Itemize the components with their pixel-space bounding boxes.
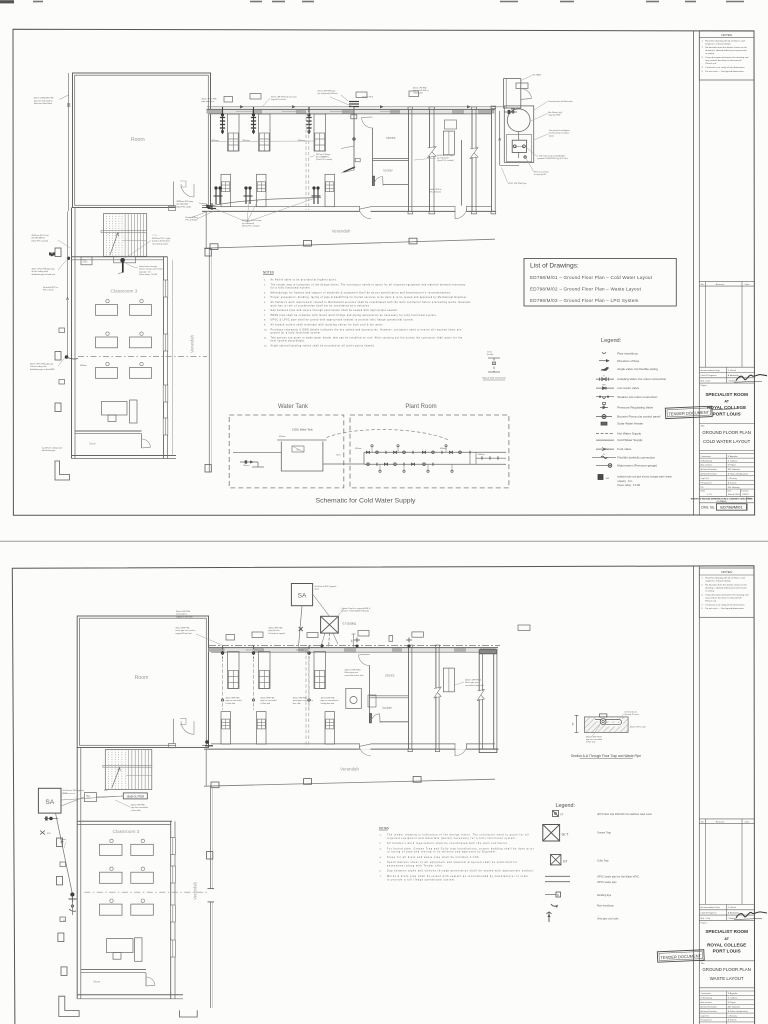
svg-text:All builder's work requirement: All builder's work requirement related t… [271, 301, 471, 304]
svg-text:Dias 100: Dias 100 [296, 650, 303, 652]
svg-text:No deviation from the details: No deviation from the details shown on t… [705, 584, 748, 587]
svg-text:SA: SA [45, 799, 54, 806]
svg-text:Rodding Eye: Rodding Eye [597, 894, 612, 897]
svg-text:any contract document is disco: any contract document is discovered / [705, 596, 742, 599]
svg-text:(for 100MART): (for 100MART) [316, 156, 329, 159]
svg-text:c/w isolating valves: c/w isolating valves [152, 242, 168, 245]
svg-text:Chk by: Chk by [748, 498, 753, 500]
svg-text:(3b GEOMETY): (3b GEOMETY) [32, 238, 46, 240]
svg-text:to laying of pipe and testing: to laying of pipe and testing to be witn… [387, 851, 497, 854]
svg-text:Isolating Valve c/w union: Isolating Valve c/w union connection [617, 377, 666, 381]
svg-text:Flexible (unkink) connection: Flexible (unkink) connection [617, 455, 655, 459]
svg-text:Verandah: Verandah [340, 767, 359, 772]
svg-text:12.: 12. [264, 346, 267, 348]
svg-text:Read this drawing with all arc: Read this drawing with all architect's a… [705, 39, 745, 42]
svg-text:electric storage water heater: electric storage water heater [139, 268, 163, 271]
svg-text:Grease Trap for a capacity 800: Grease Trap for a capacity 800L & [342, 607, 371, 610]
svg-text:Waste pipe runs: Waste pipe runs [465, 681, 479, 684]
svg-text:65mm uPE PCR 100 c/w outer: 65mm uPE PCR 100 c/w outer [271, 95, 297, 98]
svg-text:Project:: Project: [701, 384, 708, 387]
svg-text:PORT LOUIS: PORT LOUIS [713, 949, 741, 954]
svg-text:Revision: Revision [716, 284, 725, 286]
svg-text:S. Beneficiary: S. Beneficiary [701, 997, 713, 1000]
svg-text:valves: valves [549, 135, 554, 137]
svg-text:The tender dwg is indication o: The tender dwg is indication of the desi… [271, 283, 467, 286]
svg-text:300: 300 [351, 640, 353, 643]
svg-text:WASTE LAYOUT: WASTE LAYOUT [710, 976, 744, 981]
svg-text:FL: FL [603, 454, 605, 456]
svg-text:COLD WATER LAYOUT: COLD WATER LAYOUT [703, 439, 751, 444]
svg-text:Slope for all drain and waste: Slope for all drain and waste pipe shall… [387, 856, 480, 859]
svg-text:ceiling floor slab: ceiling floor slab [321, 702, 335, 705]
svg-text:Power rating : 3.0 kW: Power rating : 3.0 kW [139, 273, 157, 276]
svg-text:Asst architect: Asst architect [701, 464, 713, 467]
svg-text:distribution pipe: distribution pipe [42, 449, 55, 452]
svg-text:100mm UPVC solid: 100mm UPVC solid [630, 726, 646, 728]
svg-text:capacity 750W: capacity 750W [548, 114, 561, 117]
svg-text:engineer's relevant details.: engineer's relevant details. [705, 42, 731, 45]
svg-text:S. Collector: S. Collector [728, 997, 738, 1000]
svg-text:booster pump w/ isolator: booster pump w/ isolator [549, 132, 570, 135]
svg-text:Verandah: Verandah [193, 881, 198, 900]
svg-text:45/32mm PVC: 4 pipe: 45/32mm PVC: 4 pipe [152, 238, 171, 240]
svg-text:UPVC waste pipe: UPVC waste pipe [597, 881, 617, 884]
svg-text:pipe runs concealed: pipe runs concealed [131, 806, 148, 809]
svg-text:NOTES: NOTES [379, 826, 389, 830]
svg-text:Ø50mm: Ø50mm [355, 448, 362, 450]
svg-text:(2mm PVC conduit): (2mm PVC conduit) [437, 159, 454, 162]
svg-text:joined to 40x32 down: joined to 40x32 down [151, 240, 170, 243]
svg-text:ED798/M/01: ED798/M/01 [720, 504, 743, 509]
svg-text:Specifications sheet of all eq: Specifications sheet of all equipment an… [387, 861, 518, 864]
svg-text:concealed in floor slab: concealed in floor slab [345, 674, 364, 677]
svg-text:verbal uplift: verbal uplift [413, 92, 423, 95]
svg-text:Manometer (Pressure gauge): Manometer (Pressure gauge) [617, 464, 657, 468]
svg-text:pipe (d) to be: pipe (d) to be [268, 629, 279, 632]
svg-text:Legend:: Legend: [556, 803, 576, 809]
svg-text:Booster Pump c/w control p: Booster Pump c/w control panel [617, 415, 660, 419]
svg-text:Read this drawing with all arc: Read this drawing with all architect's a… [705, 577, 745, 580]
svg-text:stack: stack [315, 588, 319, 591]
svg-text:capped W low level: capped W low level [175, 633, 192, 635]
svg-text:40mm UPE PN6: 40mm UPE PN6 [175, 628, 189, 630]
svg-text:pipe run concealed in: pipe run concealed in [321, 699, 339, 702]
svg-text:AT: AT [724, 400, 729, 404]
svg-text:40mm UPE PN6: 40mm UPE PN6 [225, 698, 239, 700]
svg-text:pipe connect to: pipe connect to [202, 100, 215, 103]
svg-text:expand 8 cm limit: expand 8 cm limit [271, 98, 286, 101]
svg-text:Principal S.U.: Principal S.U. [701, 481, 713, 484]
svg-text:Pipe rises/drop: Pipe rises/drop [617, 351, 638, 355]
svg-text:SM. Sebastien: SM. Sebastien [728, 1005, 740, 1008]
svg-text:For buried pipe, Grease Trap a: For buried pipe, Grease Trap and Gully t… [387, 847, 534, 850]
svg-text:Gully Trap: Gully Trap [597, 860, 609, 863]
svg-text:S. Appadoo: S. Appadoo [728, 455, 738, 458]
svg-text:Ø50mm: Ø50mm [80, 365, 87, 367]
svg-text:100mm UPE PN10: 100mm UPE PN10 [465, 680, 481, 682]
svg-text:Dias 100: Dias 100 [246, 650, 253, 652]
svg-text:Architect/Translator: Architect/Translator [701, 1010, 718, 1013]
svg-text:Ø50mm: Ø50mm [279, 436, 286, 438]
svg-text:best system accordingly.: best system accordingly. [271, 340, 306, 343]
svg-text:in floor slab: in floor slab [586, 742, 595, 744]
svg-text:Barrier UPE to: Barrier UPE to [186, 216, 198, 219]
svg-text:M.E. / Civil: M.E. / Civil [701, 381, 711, 383]
svg-text:Works & drain pipe shall be jo: Works & drain pipe shall be joined with … [387, 875, 529, 878]
svg-text:Vertical PN 6: Vertical PN 6 [362, 96, 373, 99]
svg-text:Contractor is to verify all si: Contractor is to verify all site dimensi… [705, 66, 745, 69]
svg-text:NOTES: NOTES [721, 570, 732, 574]
svg-text:quoted for a fully functional: quoted for a fully functional system. [271, 332, 322, 335]
svg-text:45mm: 45mm [243, 465, 249, 467]
svg-text:Architect/Translator: Architect/Translator [701, 468, 718, 471]
svg-text:Plant Room: Plant Room [405, 404, 436, 410]
svg-text:40mm UPE PN6: 40mm UPE PN6 [293, 698, 307, 700]
svg-text:in writing.: in writing. [705, 590, 715, 593]
svg-text:(as indicated): (as indicated) [437, 157, 449, 160]
svg-text:A. Suseelt: A. Suseelt [728, 1019, 737, 1022]
svg-text:Verandah: Verandah [332, 229, 351, 234]
svg-text:Purchase schematic & DWG detai: Purchase schematic & DWG details indicat… [271, 328, 462, 331]
svg-text:45/32mm PVC-U (a): 45/32mm PVC-U (a) [32, 235, 49, 237]
svg-text:40mm UPE PN6: 40mm UPE PN6 [176, 611, 190, 613]
svg-text:Capt. S.U.: Capt. S.U. [701, 477, 710, 480]
svg-text:100mm UPE PN10: 100mm UPE PN10 [345, 670, 361, 672]
svg-text:40mm uPVC PN6 pipe (up): 40mm uPVC PN6 pipe (up) [32, 269, 55, 271]
svg-text:stores: stores [385, 674, 395, 678]
svg-text:Strainer: 750x750x800 H (mad: Strainer: 750x750x800 H (made) [342, 610, 370, 613]
svg-text:Date: Date [728, 490, 732, 493]
svg-text:pipe run concealed: pipe run concealed [260, 699, 276, 702]
svg-text:Schematic for Cold Water S: Schematic for Cold Water Supply [316, 497, 416, 504]
svg-text:Gr.T: Gr.T [562, 833, 570, 837]
svg-text:Revision: Revision [716, 821, 725, 823]
svg-text:Concrete base for Water tank: Concrete base for Water tank [548, 100, 573, 103]
svg-text:SA: SA [298, 593, 307, 600]
svg-text:Drawn by: Drawn by [742, 491, 749, 493]
svg-text:Title:: Title: [701, 962, 706, 965]
svg-text:waste pipe runs surface: waste pipe runs surface [175, 629, 195, 632]
svg-text:NOTES: NOTES [721, 33, 732, 37]
svg-text:NOTES: NOTES [263, 271, 274, 275]
svg-text:40mm UPE PN6: 40mm UPE PN6 [131, 805, 145, 807]
svg-text:HDPE pipe shall be complete wi: HDPE pipe shall be complete with fusion … [271, 314, 437, 317]
svg-text:A. Veloce (for Aqualace): A. Veloce (for Aqualace) [728, 1010, 749, 1013]
svg-text:D. Harish: D. Harish [728, 907, 736, 909]
svg-text:Angle valve c/w flexible pipin: Angle valve c/w flexible piping [617, 367, 658, 371]
svg-text:distribution pipe to feed HWS: distribution pipe to feed HWS [30, 368, 55, 371]
svg-text:Date: Date [745, 283, 750, 286]
svg-text:UPVC & LPVC pipe shall be join: UPVC & LPVC pipe shall be joined with ap… [271, 319, 415, 322]
svg-text:Marble UPE to: Marble UPE to [429, 188, 441, 191]
svg-text:ED798/M/02 – Ground Floor: ED798/M/02 – Ground Floor Plan – Waste L… [530, 286, 642, 291]
svg-text:ED798/M/03 – Ground Floor: ED798/M/03 – Ground Floor Plan – LPG Sys… [530, 298, 639, 303]
svg-text:Gap between pipes and sleeves: Gap between pipes and sleeves through pe… [387, 870, 535, 873]
svg-text:45/32mm PVC pipe: 45/32mm PVC pipe [177, 201, 193, 203]
svg-text:Direction of flow: Direction of flow [617, 359, 639, 363]
svg-text:M. Pigeot: M. Pigeot [728, 464, 736, 467]
svg-text:PVC (3 blank): PVC (3 blank) [429, 192, 441, 194]
svg-text:PVC (2 blank): PVC (2 blank) [186, 220, 198, 222]
svg-text:waste pipe to: waste pipe to [176, 613, 187, 616]
svg-text:Water Tank: Water Tank [278, 404, 309, 410]
svg-text:S. Beneficiary: S. Beneficiary [701, 459, 713, 462]
svg-text:65mm CWS/uPE PN6: 65mm CWS/uPE PN6 [34, 98, 54, 100]
svg-text:(as indicated): (as indicated) [242, 222, 254, 225]
svg-text:40mm UPE PN6: 40mm UPE PN6 [260, 698, 274, 700]
svg-text:concealed in floor slab: concealed in floor slab [465, 684, 484, 687]
svg-text:Asst architect: Asst architect [701, 1001, 713, 1004]
svg-text:pipe (as indicated) to: pipe (as indicated) to [34, 99, 53, 102]
svg-text:capped W tow level: capped W tow level [176, 615, 193, 618]
svg-text:Ø40mm: Ø40mm [440, 448, 447, 450]
svg-text:required equipment and materia: required equipment and materials (works)… [387, 837, 516, 840]
svg-text:Solar Water Heater: Solar Water Heater [617, 422, 643, 426]
svg-text:MINISTRY OF NATIONAL INFRASTRU: MINISTRY OF NATIONAL INFRASTRUCTURE & CO… [691, 497, 754, 500]
svg-text:uPVC floor trap 100x100 c/w s: uPVC floor trap 100x100 c/w stainless st… [597, 813, 652, 816]
svg-text:11.: 11. [264, 337, 267, 339]
svg-text:non return valve: non return valve [617, 386, 639, 390]
svg-text:Accommodation Supt: Accommodation Supt [701, 369, 720, 372]
svg-text:Classroom 3: Classroom 3 [113, 829, 140, 835]
svg-text:(Size PVC cond): (Size PVC cond) [177, 206, 191, 208]
svg-text:Proper excavation, bending, la: Proper excavation, bending, laying of pi… [271, 296, 468, 299]
svg-text:any contract document is disco: any contract document is discovered / [705, 59, 742, 62]
svg-text:Soil Vent w/ SVP (approx): Soil Vent w/ SVP (approx) [315, 585, 337, 588]
svg-text:Strainer c/w union connecti: Strainer c/w union connection [617, 395, 657, 399]
svg-text:(as indicated) wall fitted: (as indicated) wall fitted [318, 92, 338, 95]
svg-text:ED798/M/01 – Ground Floor: ED798/M/01 – Ground Floor Plan – Cold Wa… [530, 275, 653, 280]
svg-text:in writing.: in writing. [705, 52, 715, 55]
svg-text:stores: stores [386, 136, 396, 140]
svg-text:A. Veloce (for Aqualace): A. Veloce (for Aqualace) [728, 473, 749, 476]
svg-text:Pressure Regulating Valve: Pressure Regulating Valve [617, 406, 653, 410]
svg-text:M.E. / Civil: M.E. / Civil [701, 918, 711, 920]
svg-text:40mm uPVC PN6 pipe (up): 40mm uPVC PN6 pipe (up) [30, 364, 53, 366]
svg-text:drawing is allowed without pri: drawing is allowed without prior permiss… [705, 49, 747, 52]
svg-text:Hot Water Supply: Hot Water Supply [617, 432, 641, 436]
svg-text:DRG. No.: DRG. No. [701, 505, 715, 509]
svg-text:40mm UPE PN6: 40mm UPE PN6 [268, 628, 282, 630]
svg-text:Power rating : 3.0 kW: Power rating : 3.0 kW [617, 484, 641, 487]
svg-text:in floor slab: in floor slab [260, 702, 270, 705]
svg-text:work has to rule of coordinati: work has to rule of coordination shall n… [271, 304, 371, 307]
svg-text:Two options are given to make: Two options are given to make water heat… [271, 336, 463, 339]
svg-text:Contractor is to verify all si: Contractor is to verify all site dimensi… [705, 603, 745, 606]
svg-text:Pipe rises/drop: Pipe rises/drop [597, 905, 614, 908]
svg-text:G.T [1000L]: G.T [1000L] [342, 621, 356, 625]
svg-text:feed new toilet block: feed new toilet block [34, 102, 52, 105]
svg-text:pipe to wall RIS as: pipe to wall RIS as [413, 89, 429, 92]
svg-text:GT: GT [563, 860, 567, 864]
svg-text:All branch outlets shall termi: All branch outlets shall terminate with … [271, 324, 384, 327]
svg-text:1500L Water Tank: 1500L Water Tank [292, 427, 314, 431]
svg-text:Architect/Translator: Architect/Translator [701, 473, 718, 476]
svg-text:GROUND FLOOR PLAN: GROUND FLOOR PLAN [702, 967, 751, 972]
svg-text:10.: 10. [264, 329, 267, 331]
svg-text:Verandah: Verandah [190, 334, 195, 353]
svg-text:Accommodation Supt: Accommodation Supt [701, 906, 720, 909]
svg-text:Section A-A Through Floor Trap: Section A-A Through Floor Trap and Waste… [571, 754, 641, 758]
svg-text:Foot valve: Foot valve [617, 447, 631, 451]
svg-text:PVC 2 (mm): PVC 2 (mm) [43, 290, 54, 292]
svg-text:Please ask.: Please ask. [705, 63, 717, 65]
svg-text:SPECIALIST ROOM: SPECIALIST ROOM [705, 929, 748, 934]
svg-text:UPVC waste pipe for Hot Wate: UPVC waste pipe for Hot Water uPVC [597, 876, 639, 879]
svg-text:A. Abdoollah: A. Abdoollah [728, 374, 739, 377]
svg-text:Room: Room [131, 137, 145, 143]
svg-text:of from ceiling valve: of from ceiling valve [30, 365, 47, 368]
svg-text:Ø50mm: Ø50mm [243, 140, 250, 142]
svg-text:guardian 1300/47/220 Qty W 2.5: guardian 1300/47/220 Qty W 2.5 bar [537, 157, 568, 160]
svg-text:As Relief valve to be provided: As Relief valve to be provided at highes… [271, 279, 337, 282]
svg-text:L. Ramsay: L. Ramsay [728, 478, 737, 480]
svg-text:NRV: NRV [602, 385, 605, 387]
svg-text:stack: stack [63, 792, 67, 795]
svg-text:of capacity 50l: of capacity 50l [534, 173, 547, 176]
svg-text:All builder's work requirement: All builder's work requirement shall be … [387, 842, 508, 845]
svg-text:L. Ramsay: L. Ramsay [728, 1015, 737, 1017]
svg-text:floor slab: floor slab [293, 702, 301, 705]
svg-text:tap off from ceiling water: tap off from ceiling water [42, 447, 63, 450]
svg-text:locker: locker [383, 706, 393, 710]
svg-text:No.: No. [701, 284, 705, 286]
svg-text:No.: No. [701, 821, 705, 823]
svg-text:A. Abdoollah: A. Abdoollah [728, 912, 739, 915]
svg-text:A. Suseelt: A. Suseelt [728, 481, 737, 484]
svg-text:uPVC: uPVC [336, 455, 341, 457]
svg-text:Conservator: Conservator [701, 992, 712, 995]
svg-text:Principal S.U.: Principal S.U. [701, 1019, 713, 1022]
svg-text:drawing is allowed without pri: drawing is allowed without prior permiss… [705, 587, 747, 590]
svg-text:engineer's relevant details.: engineer's relevant details. [705, 580, 731, 583]
svg-text:of from ceiling valve: of from ceiling valve [32, 270, 49, 273]
svg-text:Grease Trap: Grease Trap [597, 832, 612, 835]
svg-text:AT: AT [724, 937, 729, 941]
svg-text:Date: Date [745, 820, 750, 823]
svg-text:Conservator: Conservator [701, 455, 712, 458]
svg-text:(3mm PVC conduit): (3mm PVC conduit) [242, 225, 260, 228]
svg-text:laid surface capped: laid surface capped [268, 632, 284, 635]
svg-text:Vent pipe c/w/ cowl: Vent pipe c/w/ cowl [597, 918, 619, 921]
svg-text:cistern: cistern [83, 261, 88, 264]
svg-text:SPECIALIST ROOM: SPECIALIST ROOM [705, 392, 748, 397]
svg-text:Waste pipe runs: Waste pipe runs [345, 671, 359, 674]
svg-text:Legend:: Legend: [601, 338, 622, 344]
svg-text:R: R [557, 893, 559, 897]
svg-text:The tender drawing is indicati: The tender drawing is indication of the … [387, 834, 529, 837]
svg-text:S. Collector: S. Collector [728, 459, 738, 462]
svg-text:Non Return (val): Non Return (val) [548, 111, 562, 114]
svg-text:No deviation from the details: No deviation from the details shown on t… [705, 46, 748, 49]
svg-text:Scale: Scale [701, 491, 706, 493]
svg-text:to provide a full fledge opera: to provide a full fledge operational sys… [387, 878, 456, 881]
svg-text:capacity : 10 L: capacity : 10 L [617, 480, 633, 483]
svg-text:M. Pigeot: M. Pigeot [728, 1001, 736, 1004]
svg-text:Typical Tank Connection: Typical Tank Connection [482, 377, 506, 380]
svg-text:for a fully functional system.: for a fully functional system. [271, 287, 311, 290]
svg-text:in floor slab: in floor slab [225, 702, 235, 705]
svg-text:Please ask.: Please ask. [705, 600, 717, 602]
svg-text:Capt. S.U.: Capt. S.U. [701, 1014, 710, 1017]
svg-text:Cold Water Supply: Cold Water Supply [617, 438, 643, 442]
svg-text:C 7%: C 7% [152, 235, 157, 237]
svg-text:Do not scale — Use figured dim: Do not scale — Use figured dimensions. [705, 70, 744, 73]
svg-text:locker: locker [384, 169, 394, 173]
svg-text:(Grey PVC conduit): (Grey PVC conduit) [32, 239, 49, 242]
svg-text:Angle valves/Isolating valves: Angle valves/Isolating valves shall be p… [271, 345, 376, 348]
svg-text:Store: Store [89, 442, 96, 446]
svg-text:(Oven PIC conduit): (Oven PIC conduit) [316, 158, 332, 161]
svg-text:Chief M. Engineer: Chief M. Engineer [701, 913, 717, 915]
svg-text:Chief M. Engineer: Chief M. Engineer [701, 375, 717, 377]
svg-text:Isolated solar unit type elect: Isolated solar unit type electric storag… [617, 476, 672, 479]
svg-text:P.S.: P.S. [701, 487, 705, 489]
svg-text:Tr/4623: Tr/4623 [742, 493, 748, 496]
svg-text:Ø40mm: Ø40mm [478, 454, 485, 456]
svg-text:(Socket) 45° bend: (Socket) 45° bend [624, 713, 638, 716]
svg-text:Do not scale — Use figured dim: Do not scale — Use figured dimensions. [705, 607, 744, 610]
svg-text:45/32mm PVC-U pipe: 45/32mm PVC-U pipe [242, 220, 262, 222]
svg-text:Title:: Title: [701, 425, 706, 428]
svg-text:waste pipe concealed in: waste pipe concealed in [293, 699, 313, 702]
svg-text:Twin pump for multipipes: Twin pump for multipipes [549, 129, 570, 132]
svg-text:distribution pipe to feed new: distribution pipe to feed new [32, 273, 56, 276]
svg-text:locked water c/w type: locked water c/w type [139, 265, 157, 268]
svg-text:capacity : 10 L: capacity : 10 L [139, 270, 151, 273]
svg-text:D. Harish: D. Harish [728, 370, 736, 372]
svg-text:PORT LOUIS: PORT LOUIS [713, 411, 741, 416]
svg-text:List of Drawings:: List of Drawings: [530, 262, 579, 269]
svg-text:Project:: Project: [701, 921, 708, 924]
svg-text:ROYAL COLLEGE: ROYAL COLLEGE [707, 943, 746, 948]
svg-text:S. Appadoo: S. Appadoo [728, 992, 738, 995]
svg-text:Architect/Translator: Architect/Translator [701, 1005, 718, 1008]
svg-text:150: 150 [573, 723, 575, 726]
svg-text:Methodology for fixation and s: Methodology for fixation and support of … [271, 291, 452, 294]
svg-text:GROUND FLOOR PLAN: GROUND FLOOR PLAN [702, 430, 751, 435]
svg-text:SM. Sebastien: SM. Sebastien [728, 468, 740, 471]
svg-text:If any discrepancy between thi: If any discrepancy between this drawing … [705, 593, 749, 596]
svg-text:40mm UPE PN6: 40mm UPE PN6 [321, 698, 335, 700]
svg-text:pipe run concealed: pipe run concealed [225, 699, 241, 702]
svg-text:1 CW water pump or twin/flexib: 1 CW water pump or twin/flexible [537, 155, 565, 158]
svg-text:If any discrepancy between thi: If any discrepancy between this drawing … [705, 56, 749, 59]
svg-text:(as indicated): (as indicated) [177, 203, 189, 206]
svg-text:S.M. Mootaga: S.M. Mootaga [728, 486, 741, 489]
svg-text:Classroom 3: Classroom 3 [111, 289, 138, 295]
svg-text:(Pressure vessel): (Pressure vessel) [534, 170, 549, 173]
svg-text:uPVC JPE PN6 Pipe: uPVC JPE PN6 Pipe [508, 183, 527, 185]
svg-text:Store: Store [94, 980, 101, 984]
svg-text:in floor slab: in floor slab [131, 809, 141, 812]
svg-text:(to tank): (to tank) [487, 353, 494, 356]
svg-text:150Ø GUTTER: 150Ø GUTTER [126, 794, 144, 798]
svg-text:WC TANK: WC TANK [533, 73, 542, 76]
svg-text:Gap between pipe and sleeve th: Gap between pipe and sleeve through pene… [271, 309, 399, 312]
svg-text:Room: Room [135, 675, 149, 681]
svg-text:FGL: FGL [104, 790, 108, 792]
svg-text:assessment along with Tender o: assessment along with Tender offer. [387, 865, 444, 868]
svg-text:March 2024: March 2024 [728, 493, 740, 496]
